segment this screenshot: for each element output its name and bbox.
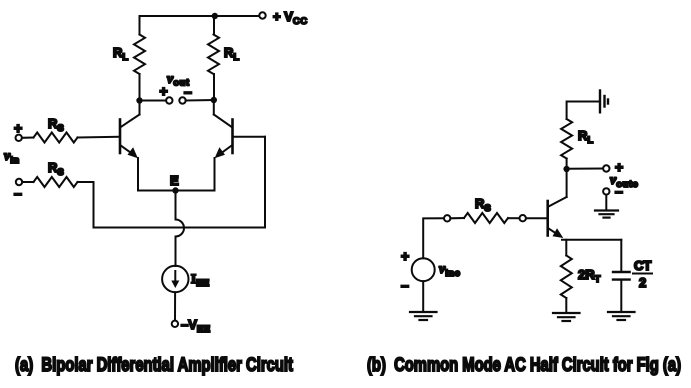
label CT/2 fraction	[633, 258, 652, 290]
current source IEE	[162, 266, 188, 292]
wire: voutc- terminal to ground	[605, 195, 607, 210]
resistor 2RT	[561, 256, 572, 299]
ground: under voutc	[595, 211, 618, 218]
wire: vinc to ground	[422, 281, 424, 311]
svg-text:–VEE: –VEE	[181, 317, 211, 335]
svg-text:RL: RL	[578, 128, 594, 146]
wire: E node down to hop	[175, 191, 177, 220]
wire: left RL top lead	[139, 16, 141, 35]
svg-text:+: +	[14, 120, 22, 136]
wire: vin- terminal to Rs	[22, 181, 33, 183]
svg-text:vinc: vinc	[439, 262, 460, 279]
wire: Rs(b) to base circle	[508, 217, 520, 219]
wire: crossover hop over horizontal wire	[176, 220, 185, 237]
terminal: +Vcc open circle	[259, 12, 265, 18]
wire: Q3 base lead	[526, 217, 547, 219]
wire: current source to -Vee terminal	[174, 292, 176, 320]
wire: emitter bottom rail	[138, 190, 215, 192]
svg-text:–: –	[615, 183, 623, 199]
svg-text:IEE: IEE	[191, 271, 210, 289]
wire: right RL top lead	[213, 16, 215, 35]
wire: RL bottom lead to collector node	[566, 159, 568, 170]
node: right collector junction	[211, 97, 217, 103]
terminal: open circle left of Rs(b)	[444, 215, 450, 221]
ground: under vinc	[410, 312, 437, 320]
svg-text:(b) Common Mode AC Half Circu: (b) Common Mode AC Half Circuit for Fig …	[367, 355, 681, 376]
wire: crossing horizontal wire to Q2 base	[94, 137, 266, 228]
svg-text:(a) Bipolar Differential Ampl: (a) Bipolar Differential Amplifier Circu…	[15, 355, 294, 376]
svg-text:RS: RS	[48, 116, 64, 134]
resistor Rs (top)	[34, 133, 78, 143]
svg-text:+: +	[615, 159, 623, 175]
transistor Q2 (right BJT)	[214, 100, 233, 158]
ground: AC ground at top of circuit b (rotated)	[600, 91, 608, 113]
svg-text:–: –	[401, 277, 409, 293]
svg-text:+ VCC: + VCC	[273, 9, 308, 27]
svg-text:+: +	[160, 83, 168, 99]
node: junction of right RL on Vcc rail	[212, 13, 218, 19]
ground: under 2RT	[553, 313, 580, 321]
terminal: vin+ open circle	[16, 135, 22, 141]
svg-text:2: 2	[639, 275, 646, 290]
wire: right RL bottom lead	[213, 74, 215, 101]
wire: +Vcc top rail	[140, 15, 259, 17]
terminal: voutc - open circle	[603, 188, 609, 194]
wire: vout- terminal to right collector	[186, 99, 214, 102]
svg-text:RL: RL	[224, 45, 240, 63]
ground: under capacitor	[608, 312, 635, 320]
wire: circle to Rs(b)	[450, 217, 464, 219]
svg-text:–: –	[184, 84, 192, 100]
node: collector junction (b)	[563, 166, 569, 172]
terminal: vout + open circle	[166, 97, 172, 103]
wire: bottom Rs right lead and corner down	[78, 182, 94, 228]
resistor Rs (circuit b)	[464, 213, 508, 223]
svg-text:2RT: 2RT	[578, 267, 601, 285]
wire: top ground to RL(b)	[567, 102, 599, 120]
wire: Q1 emitter down to bottom rail	[137, 158, 139, 191]
wire: left collector to vout+ terminal	[140, 100, 167, 102]
resistor RL (left)	[134, 35, 145, 75]
terminal: vout - open circle	[179, 97, 185, 103]
transistor Q1 (left BJT)	[120, 101, 140, 159]
wire: collector node to voutc+ terminal	[567, 168, 603, 170]
wire: 2RT to ground	[565, 298, 567, 313]
svg-text:CT: CT	[634, 258, 651, 273]
terminal: -Vee open circle	[172, 321, 178, 327]
resistor RL (circuit b)	[561, 119, 572, 159]
wire: left RL bottom lead	[139, 74, 141, 101]
terminal: vin- open circle	[16, 179, 22, 185]
svg-text:RL: RL	[113, 45, 129, 63]
svg-text:RS: RS	[48, 160, 64, 178]
svg-text:E: E	[170, 173, 179, 188]
terminal: voutc + open circle	[603, 165, 609, 171]
source vinc	[412, 258, 435, 281]
transistor Q3 (circuit b BJT)	[548, 169, 567, 238]
wire: Q3 emitter corner to cap branch	[562, 239, 621, 241]
svg-text:vin: vin	[4, 149, 20, 166]
terminal: open circle at Q3 base	[520, 215, 526, 221]
capacitor CT/2 plates	[613, 272, 630, 280]
wire: hop down to current source	[175, 237, 177, 267]
wire: emitter node down to 2RT	[565, 240, 567, 256]
wire: vin+ terminal to Rs	[22, 137, 34, 139]
wire: Q2 base lead	[234, 136, 266, 138]
resistor Rs (bottom)	[34, 177, 78, 187]
capacitor CT/2 top lead	[620, 240, 622, 272]
wire: vinc source top corner to circle	[423, 218, 444, 258]
svg-text:–: –	[14, 185, 22, 201]
capacitor CT/2 bottom lead	[620, 280, 622, 312]
node: left collector junction	[136, 97, 142, 103]
wire: Q2 emitter down to bottom rail	[214, 158, 216, 191]
resistor RL (right)	[208, 35, 219, 75]
node E junction dot	[172, 187, 178, 193]
wire: Rs to Q1 base	[78, 136, 120, 139]
svg-text:+: +	[401, 248, 409, 264]
svg-text:RS: RS	[475, 196, 491, 214]
